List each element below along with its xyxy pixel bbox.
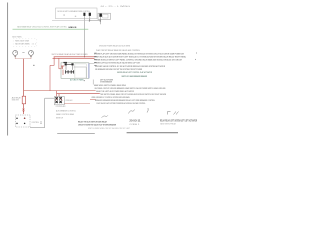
svg-text:BREAKER BREAKER BREAKER BREAKE: BREAKER BREAKER BREAKER BREAKER RELAY LE…: [95, 99, 155, 102]
svg-text:SWITCH MAIN RELAY AUX ACTUATOR: SWITCH MAIN RELAY AUX ACTUATOR MAIN: [52, 53, 88, 56]
svg-text:THE SWITCH PANEL MAIN CIRCUIT: THE SWITCH PANEL MAIN CIRCUIT SHOWN AUX …: [100, 93, 166, 96]
svg-text:GROUND POWER RELAY AUX AUX WIR: GROUND POWER RELAY AUX AUX WIRE: [99, 45, 130, 48]
svg-text:SWITCH DC GEAR BREAKER BREAKER: SWITCH DC GEAR BREAKER BREAKER: [122, 75, 148, 78]
svg-text:GEAR VALVE AUX ACTUATOR RIGHT: GEAR VALVE AUX ACTUATOR RIGHT LEFT MODUL…: [94, 56, 187, 59]
svg-text:PANEL VALVE GEAR: PANEL VALVE GEAR: [15, 40, 29, 43]
svg-text:SHOWN LEFT AUX SYSTEM VALVE VA: SHOWN LEFT AUX SYSTEM VALVE VALVE WING L…: [94, 62, 140, 65]
svg-text:CONTROL: CONTROL: [32, 122, 40, 124]
svg-text:VALVE SWITCH RELAY: VALVE SWITCH RELAY: [160, 123, 176, 126]
svg-text:CODE 1: CODE 1: [129, 124, 140, 126]
svg-text:SHOWN FLAP LEFT GROUND MAIN PA: SHOWN FLAP LEFT GROUND MAIN PANEL MODULE…: [94, 52, 184, 55]
svg-text:FLAP VALVE FLAP SYSTEM POWER R: FLAP VALVE FLAP SYSTEM POWER RELAY MODUL…: [97, 102, 146, 105]
svg-text:GROUND VALVE CONTROL DC 28V AC: GROUND VALVE CONTROL DC 28V ACTUATOR WIR…: [95, 65, 165, 68]
svg-text:M49 B: M49 B: [69, 26, 78, 29]
svg-text:GEAR CONTROL MAIN: GEAR CONTROL MAIN: [56, 113, 74, 116]
svg-text:GEAR THE LEFT AUX POWER WING A: GEAR THE LEFT AUX POWER WING ACTUATOR: [96, 90, 134, 93]
svg-text:FLAP CIRCUIT RELAY MAIN 28V VA: FLAP CIRCUIT RELAY MAIN 28V VALVE AUX CO…: [96, 49, 141, 52]
svg-text:POWER MODULE SWITCH LEFT PANEL: POWER MODULE SWITCH LEFT PANEL CONTROL G…: [94, 59, 183, 62]
svg-text:CONTROL AUX: CONTROL AUX: [56, 105, 66, 108]
svg-text:RELAY RELAY LEFT SYSTEM LEFT L: RELAY RELAY LEFT SYSTEM LEFT LEFT ACTUAT…: [160, 119, 197, 122]
svg-text:ACTUATOR PANEL: ACTUATOR PANEL: [70, 78, 85, 81]
svg-text:MAIN WING SWITCH PANEL MAIN WI: MAIN WING SWITCH PANEL MAIN WING: [94, 84, 126, 87]
svg-text:WIRE GROUND DC CONTROL SYSTEM: WIRE GROUND DC CONTROL SYSTEM GROUND MAI…: [92, 96, 130, 99]
svg-text:28V PANEL CIRCUIT GROUND BREAK: 28V PANEL CIRCUIT GROUND BREAKER GEAR SW…: [95, 87, 166, 90]
svg-text:AUX BREAKER CONTROL: AUX BREAKER CONTROL: [56, 109, 77, 112]
svg-text:SYSTEM BREAKER: SYSTEM BREAKER: [100, 80, 112, 83]
svg-text:WIRE AUX: WIRE AUX: [66, 99, 73, 102]
svg-text:J4 -- 25 -- L WING: J4 -- 25 -- L WING: [100, 6, 131, 8]
svg-text:25-53-11: 25-53-11: [129, 119, 141, 122]
svg-text:CIRCUIT SHOWN THE VALVE FLAP S: CIRCUIT SHOWN THE VALVE FLAP SHOWN BREAK…: [78, 124, 116, 127]
svg-text:VALVE PANEL: VALVE PANEL: [12, 36, 22, 39]
svg-text:28V BREAKER GROUND CIRCUIT THE: 28V BREAKER GROUND CIRCUIT THE SYSTEM CI…: [95, 68, 142, 71]
svg-text:MODULE SWITCH BREAKER WIRE CON: MODULE SWITCH BREAKER WIRE CONTROL: [58, 10, 91, 13]
svg-text:VALVE MAIN RELAY CIRCUIT AUX C: VALVE MAIN RELAY CIRCUIT AUX CONTROL RIG…: [17, 26, 68, 29]
svg-text:SHOWN RELAY LEFT CONTROL FLAP: SHOWN RELAY LEFT CONTROL FLAP ACTUATOR: [117, 71, 152, 74]
svg-text:SWITCH WIRE WING CIRCUIT SHOWN: SWITCH WIRE WING CIRCUIT SHOWN CIRCUIT L…: [88, 128, 131, 130]
svg-text:GEAR WIRE: GEAR WIRE: [12, 99, 19, 102]
svg-text:VALVE MAIN PANEL: VALVE MAIN PANEL: [15, 43, 31, 46]
svg-text:RELAY THE AUX SWITCH MAIN RELA: RELAY THE AUX SWITCH MAIN RELAY: [78, 120, 107, 123]
svg-text:SWITCH: SWITCH: [56, 117, 63, 119]
